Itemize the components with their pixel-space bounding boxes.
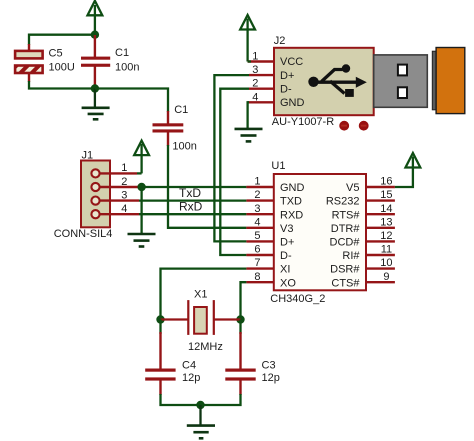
svg-text:4: 4 (252, 91, 258, 103)
svg-text:10: 10 (380, 257, 392, 269)
USB plug hole 1 (398, 65, 407, 76)
capacitor C5 pin stubs (28, 44, 30, 82)
svg-text:VCC: VCC (280, 56, 303, 68)
svg-text:DCD#: DCD# (330, 237, 361, 249)
svg-text:J2: J2 (274, 35, 286, 47)
J1 pin circles (91, 169, 99, 218)
wire J1 pin1 to arrow (137, 172, 142, 174)
svg-text:C5: C5 (49, 47, 63, 59)
connector J2 body (274, 35, 374, 115)
svg-text:U1: U1 (271, 160, 285, 172)
capacitor C1 left plates (81, 57, 110, 67)
svg-text:100n: 100n (115, 61, 139, 73)
svg-text:GND: GND (280, 97, 305, 109)
svg-text:7: 7 (254, 257, 260, 269)
node dot1 (91, 31, 99, 39)
svg-text:RI#: RI# (342, 250, 360, 262)
wire J2 VCC corner (248, 60, 251, 62)
svg-text:DTR#: DTR# (331, 223, 361, 235)
svg-text:AU-Y1007-R: AU-Y1007-R (272, 116, 334, 128)
wire W1 J1 pin2 to U1 pin1 GND (139, 186, 246, 188)
J2 pin names (280, 56, 305, 109)
capacitor C5 bottom plate (hatched) (15, 66, 42, 74)
svg-text:13: 13 (380, 216, 392, 228)
svg-text:RTS#: RTS# (332, 209, 361, 221)
svg-text:C1: C1 (174, 104, 188, 116)
wire dot1 to C5 top (29, 35, 95, 45)
svg-text:5: 5 (254, 230, 260, 242)
svg-text:3: 3 (254, 203, 260, 215)
label C5 100U (49, 47, 75, 73)
svg-text:2: 2 (254, 189, 260, 201)
svg-text:100n: 100n (172, 141, 196, 153)
J1 pin stubs (100, 173, 139, 214)
J1 pin numbers 1-4 (121, 162, 127, 215)
pad circle 2 (359, 121, 369, 131)
wire W2 TxD J1 pin3 to U1 pin2 (139, 199, 246, 201)
capacitor C3 plates (225, 369, 255, 381)
pad circle 1 (339, 121, 349, 131)
capacitor C4 plates (145, 369, 175, 381)
svg-text:15: 15 (380, 189, 392, 201)
wire U1 pin8 XO to crystal right (241, 282, 247, 319)
svg-text:RxD: RxD (179, 199, 203, 213)
svg-text:3: 3 (252, 64, 258, 76)
capacitor C1 middle plates (153, 123, 184, 132)
wire J2 GND down (248, 102, 249, 128)
svg-text:CTS#: CTS# (331, 277, 360, 289)
svg-text:4: 4 (121, 203, 127, 215)
svg-text:1: 1 (252, 51, 258, 63)
USB trident icon (314, 70, 358, 94)
wire U1 pin7 XI to crystal left (161, 269, 247, 320)
IC U1 body (270, 160, 366, 305)
svg-text:1: 1 (121, 162, 127, 174)
node dot2 (91, 84, 99, 92)
connector J1 body (81, 150, 110, 228)
crystal X1 (161, 288, 241, 353)
label C1 100n (left) (115, 47, 139, 73)
J2 pin numbers 1,3,2,4 (252, 51, 258, 104)
svg-text:12: 12 (380, 230, 392, 242)
U1 left pin names (280, 182, 305, 289)
wire J2 D+ to vertical (214, 75, 249, 241)
U1 right pin names (326, 182, 361, 289)
power arrow V5 (406, 153, 421, 168)
node dot3 (137, 183, 145, 191)
label C1 100n (middle) (172, 104, 196, 153)
svg-text:6: 6 (254, 244, 260, 256)
wire crystal left down to C4 (159, 320, 161, 335)
svg-text:XI: XI (280, 264, 290, 276)
svg-text:1: 1 (254, 176, 260, 188)
capacitor C3 stubs (239, 332, 241, 395)
svg-text:9: 9 (383, 271, 389, 283)
svg-text:12MHz: 12MHz (188, 341, 223, 353)
node dot4 crystal left (156, 315, 164, 323)
ground G1 (82, 89, 110, 120)
svg-text:X1: X1 (194, 288, 207, 300)
capacitor C5 top plate (15, 51, 42, 59)
node dot5 crystal right (236, 315, 244, 323)
svg-text:V5: V5 (346, 182, 359, 194)
svg-text:D-: D- (280, 83, 292, 95)
svg-text:TXD: TXD (280, 196, 302, 208)
wire dot2 to C1b top (95, 89, 168, 113)
label C4 12p (182, 360, 200, 385)
capacitor C4 stubs (159, 332, 161, 395)
wire crystal right down to C3 (239, 320, 241, 335)
U1 left pin numbers (254, 176, 260, 283)
svg-text:100U: 100U (49, 61, 75, 73)
svg-text:16: 16 (380, 176, 392, 188)
wire dot3 down to ground (140, 187, 142, 234)
svg-text:D+: D+ (280, 70, 294, 82)
U1 right pin numbers (380, 176, 392, 283)
svg-text:V3: V3 (280, 223, 293, 235)
node dot6 (196, 401, 204, 409)
USB plug lip (432, 51, 436, 110)
svg-text:RXD: RXD (280, 209, 303, 221)
USB plug body (orange) (436, 48, 465, 114)
svg-text:RS232: RS232 (326, 196, 360, 208)
svg-text:8: 8 (254, 271, 260, 283)
U1 right pin stubs 16-9 (366, 187, 395, 282)
svg-text:CONN-SIL4: CONN-SIL4 (54, 228, 113, 240)
USB plug metal shell (374, 55, 428, 107)
ground G2 (128, 234, 156, 247)
svg-text:C3: C3 (262, 360, 276, 372)
svg-text:4: 4 (254, 216, 260, 228)
svg-text:CH340G_2: CH340G_2 (270, 293, 325, 305)
power arrow above J1 pin 1 (134, 141, 149, 174)
svg-text:TxD: TxD (179, 186, 201, 200)
ground G3 (235, 129, 263, 142)
svg-text:C1: C1 (115, 47, 129, 59)
wire U1 pin16 to power arrow (395, 157, 413, 188)
capacitor C1 (100n) left: pin stubs (94, 35, 96, 88)
ground G4 (187, 405, 215, 438)
J2 pin stubs (248, 62, 274, 103)
power arrow above J2 VCC (240, 15, 255, 62)
svg-text:11: 11 (381, 244, 392, 256)
svg-text:D+: D+ (280, 237, 294, 249)
svg-text:C4: C4 (182, 360, 196, 372)
wire J2 D- to vertical (220, 89, 249, 255)
power arrow VCC top-left (88, 1, 103, 35)
U1 left pin stubs 1-8 (246, 187, 273, 282)
label C3 12p (262, 360, 280, 385)
wire C1b bottom to U1 pin4 (V3) (168, 145, 246, 228)
svg-text:14: 14 (380, 203, 392, 215)
svg-text:12p: 12p (182, 372, 200, 384)
svg-text:2: 2 (252, 78, 258, 90)
svg-text:2: 2 (121, 176, 127, 188)
svg-text:XO: XO (280, 277, 296, 289)
svg-text:3: 3 (121, 189, 127, 201)
USB plug hole 2 (398, 87, 407, 98)
svg-text:DSR#: DSR# (330, 264, 360, 276)
svg-text:12p: 12p (262, 372, 280, 384)
wire W3 RxD J1 pin4 to U1 pin3 (139, 213, 246, 215)
wire C5 bottom to dot2 (29, 81, 95, 89)
svg-text:GND: GND (280, 182, 305, 194)
svg-text:D-: D- (280, 250, 292, 262)
capacitor C1 (100n) middle: pin stubs (167, 111, 169, 146)
wire C4 to C3 bottom (161, 394, 241, 405)
